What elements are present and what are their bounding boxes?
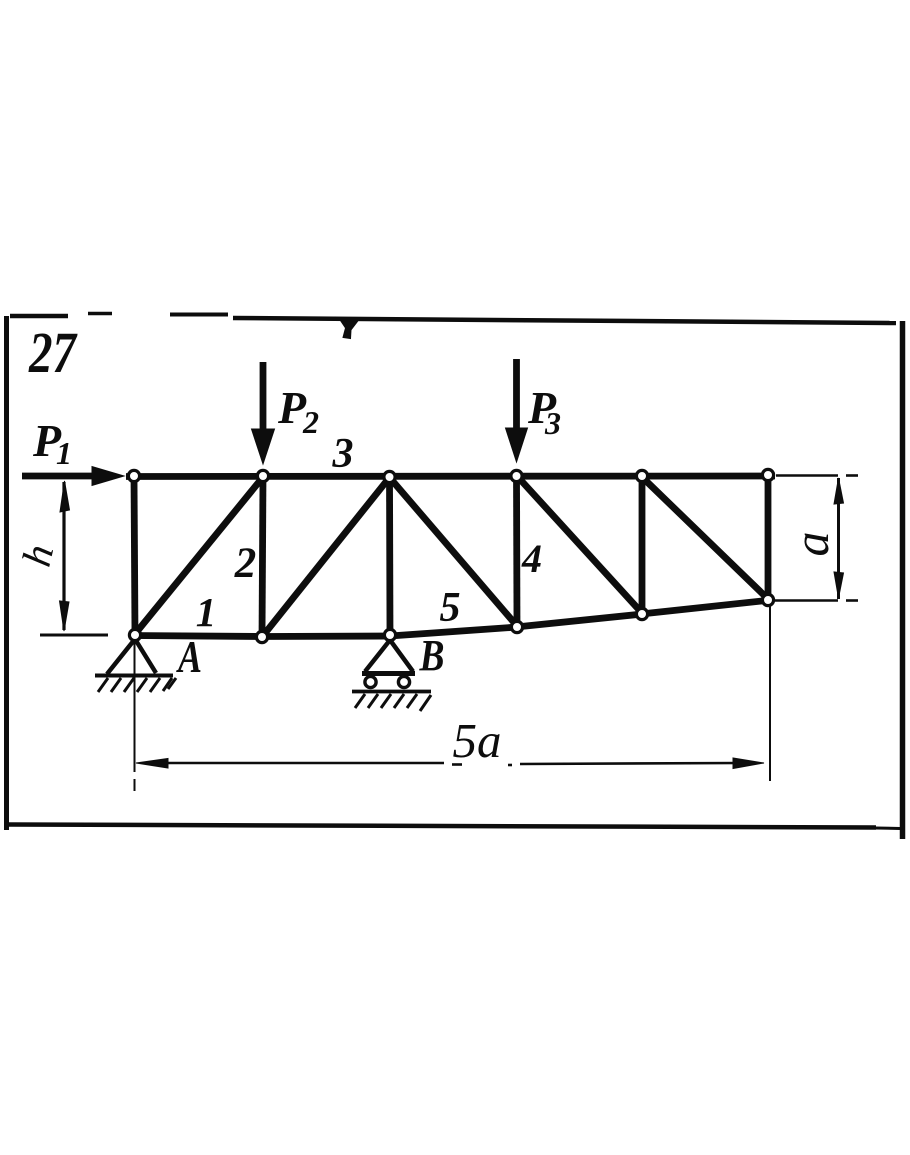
label P1 bbox=[32, 415, 72, 471]
svg-text:1: 1 bbox=[196, 589, 217, 635]
svg-text:1: 1 bbox=[56, 435, 72, 471]
bottom node 5 bbox=[636, 608, 647, 619]
node top 5 bbox=[636, 470, 647, 481]
bottom chord member 1 (A to first bottom node) bbox=[130, 636, 264, 637]
label dimension 5a bbox=[453, 713, 502, 768]
dimension h: vertical line with arrows bbox=[60, 481, 70, 631]
bottom chord member (next panel) bbox=[516, 614, 643, 627]
vertical member at right end bbox=[765, 475, 772, 601]
label dimension a bbox=[783, 532, 839, 557]
force P2 arrow bbox=[252, 362, 275, 464]
label P2 bbox=[277, 382, 319, 440]
dimension a: vertical line with arrows bbox=[834, 478, 844, 599]
label support B bbox=[419, 631, 445, 680]
diagonal member panel 5 bbox=[642, 477, 768, 599]
roller wheels of support B bbox=[365, 676, 410, 687]
hatching under support B bbox=[355, 694, 431, 711]
svg-text:A: A bbox=[176, 632, 202, 682]
support A (pin) triangle bbox=[95, 639, 173, 676]
diagonal member panel 3 (top node 3 down to bottom node under P3) bbox=[390, 478, 517, 626]
vertical member (fifth panel point) bbox=[639, 476, 646, 614]
vertical member above B bbox=[386, 477, 393, 636]
hatching under support A bbox=[98, 678, 176, 692]
bottom chord member (last panel) bbox=[641, 600, 771, 614]
diagonal member panel 4 bbox=[517, 476, 642, 613]
node top-right bbox=[762, 469, 773, 480]
label member 5 bbox=[440, 585, 461, 631]
svg-text:5: 5 bbox=[440, 585, 461, 631]
frame border top (dashed at left, solid right) bbox=[10, 314, 896, 324]
top chord (members between top nodes, includes member 3) bbox=[126, 473, 775, 480]
diagonal member panel 1 (A up to top node 2) bbox=[135, 477, 263, 634]
bottom chord member 5 (B to node under P3) bbox=[390, 627, 518, 636]
label 27 (problem number) bbox=[28, 320, 77, 385]
bottom node 2 bbox=[256, 631, 267, 642]
label member 4 bbox=[521, 536, 542, 581]
bottom chord member (first bottom node to B) bbox=[262, 633, 392, 640]
node A (bottom-left support) bbox=[129, 629, 140, 640]
label P3 bbox=[527, 382, 561, 441]
label dimension h bbox=[13, 540, 62, 570]
frame border right bbox=[900, 321, 906, 839]
tick mark on top border bbox=[341, 321, 358, 339]
svg-text:2: 2 bbox=[234, 540, 257, 587]
svg-text:a: a bbox=[783, 532, 839, 557]
svg-text:3: 3 bbox=[332, 431, 354, 477]
bottom node 4 bbox=[511, 621, 522, 632]
ground line under support B bbox=[352, 690, 431, 694]
frame border bottom bbox=[8, 825, 900, 829]
dimension a: extension lines right of truss bbox=[775, 476, 858, 601]
vertical member at left end (top-left node to A) bbox=[134, 476, 135, 636]
force P3 arrow bbox=[506, 359, 528, 462]
svg-text:27: 27 bbox=[28, 320, 77, 385]
force P1 arrow bbox=[22, 467, 124, 486]
svg-text:2: 2 bbox=[302, 404, 319, 440]
vertical member 2 bbox=[262, 476, 263, 637]
label member 2 bbox=[234, 540, 257, 587]
dimension 5a: extension line down from bottom-right node bbox=[769, 604, 771, 781]
svg-text:5a: 5a bbox=[453, 713, 502, 768]
node top 4 (under P3) bbox=[511, 470, 522, 481]
vertical member 4 bbox=[513, 476, 520, 627]
dimension 5a: extension line down from A bbox=[134, 640, 136, 791]
node top 2 (under P2) bbox=[257, 470, 268, 481]
node B (roller support) bbox=[384, 629, 395, 640]
dimension 5a: horizontal line with arrows bbox=[136, 758, 764, 769]
svg-text:B: B bbox=[419, 631, 445, 680]
frame border left bbox=[4, 316, 9, 830]
support B (roller) triangle bbox=[362, 640, 415, 674]
label member 3 bbox=[332, 431, 354, 477]
diagonal member panel 2 (bottom node up to top node 3) bbox=[262, 478, 389, 637]
svg-text:3: 3 bbox=[544, 405, 561, 441]
label support A bbox=[176, 632, 202, 682]
dimension h bottom extension line bbox=[40, 634, 108, 637]
node top-left bbox=[128, 470, 139, 481]
bottom node right bbox=[762, 594, 773, 605]
node top 3 bbox=[384, 471, 395, 482]
label member 1 bbox=[196, 589, 217, 635]
svg-text:4: 4 bbox=[521, 536, 542, 581]
